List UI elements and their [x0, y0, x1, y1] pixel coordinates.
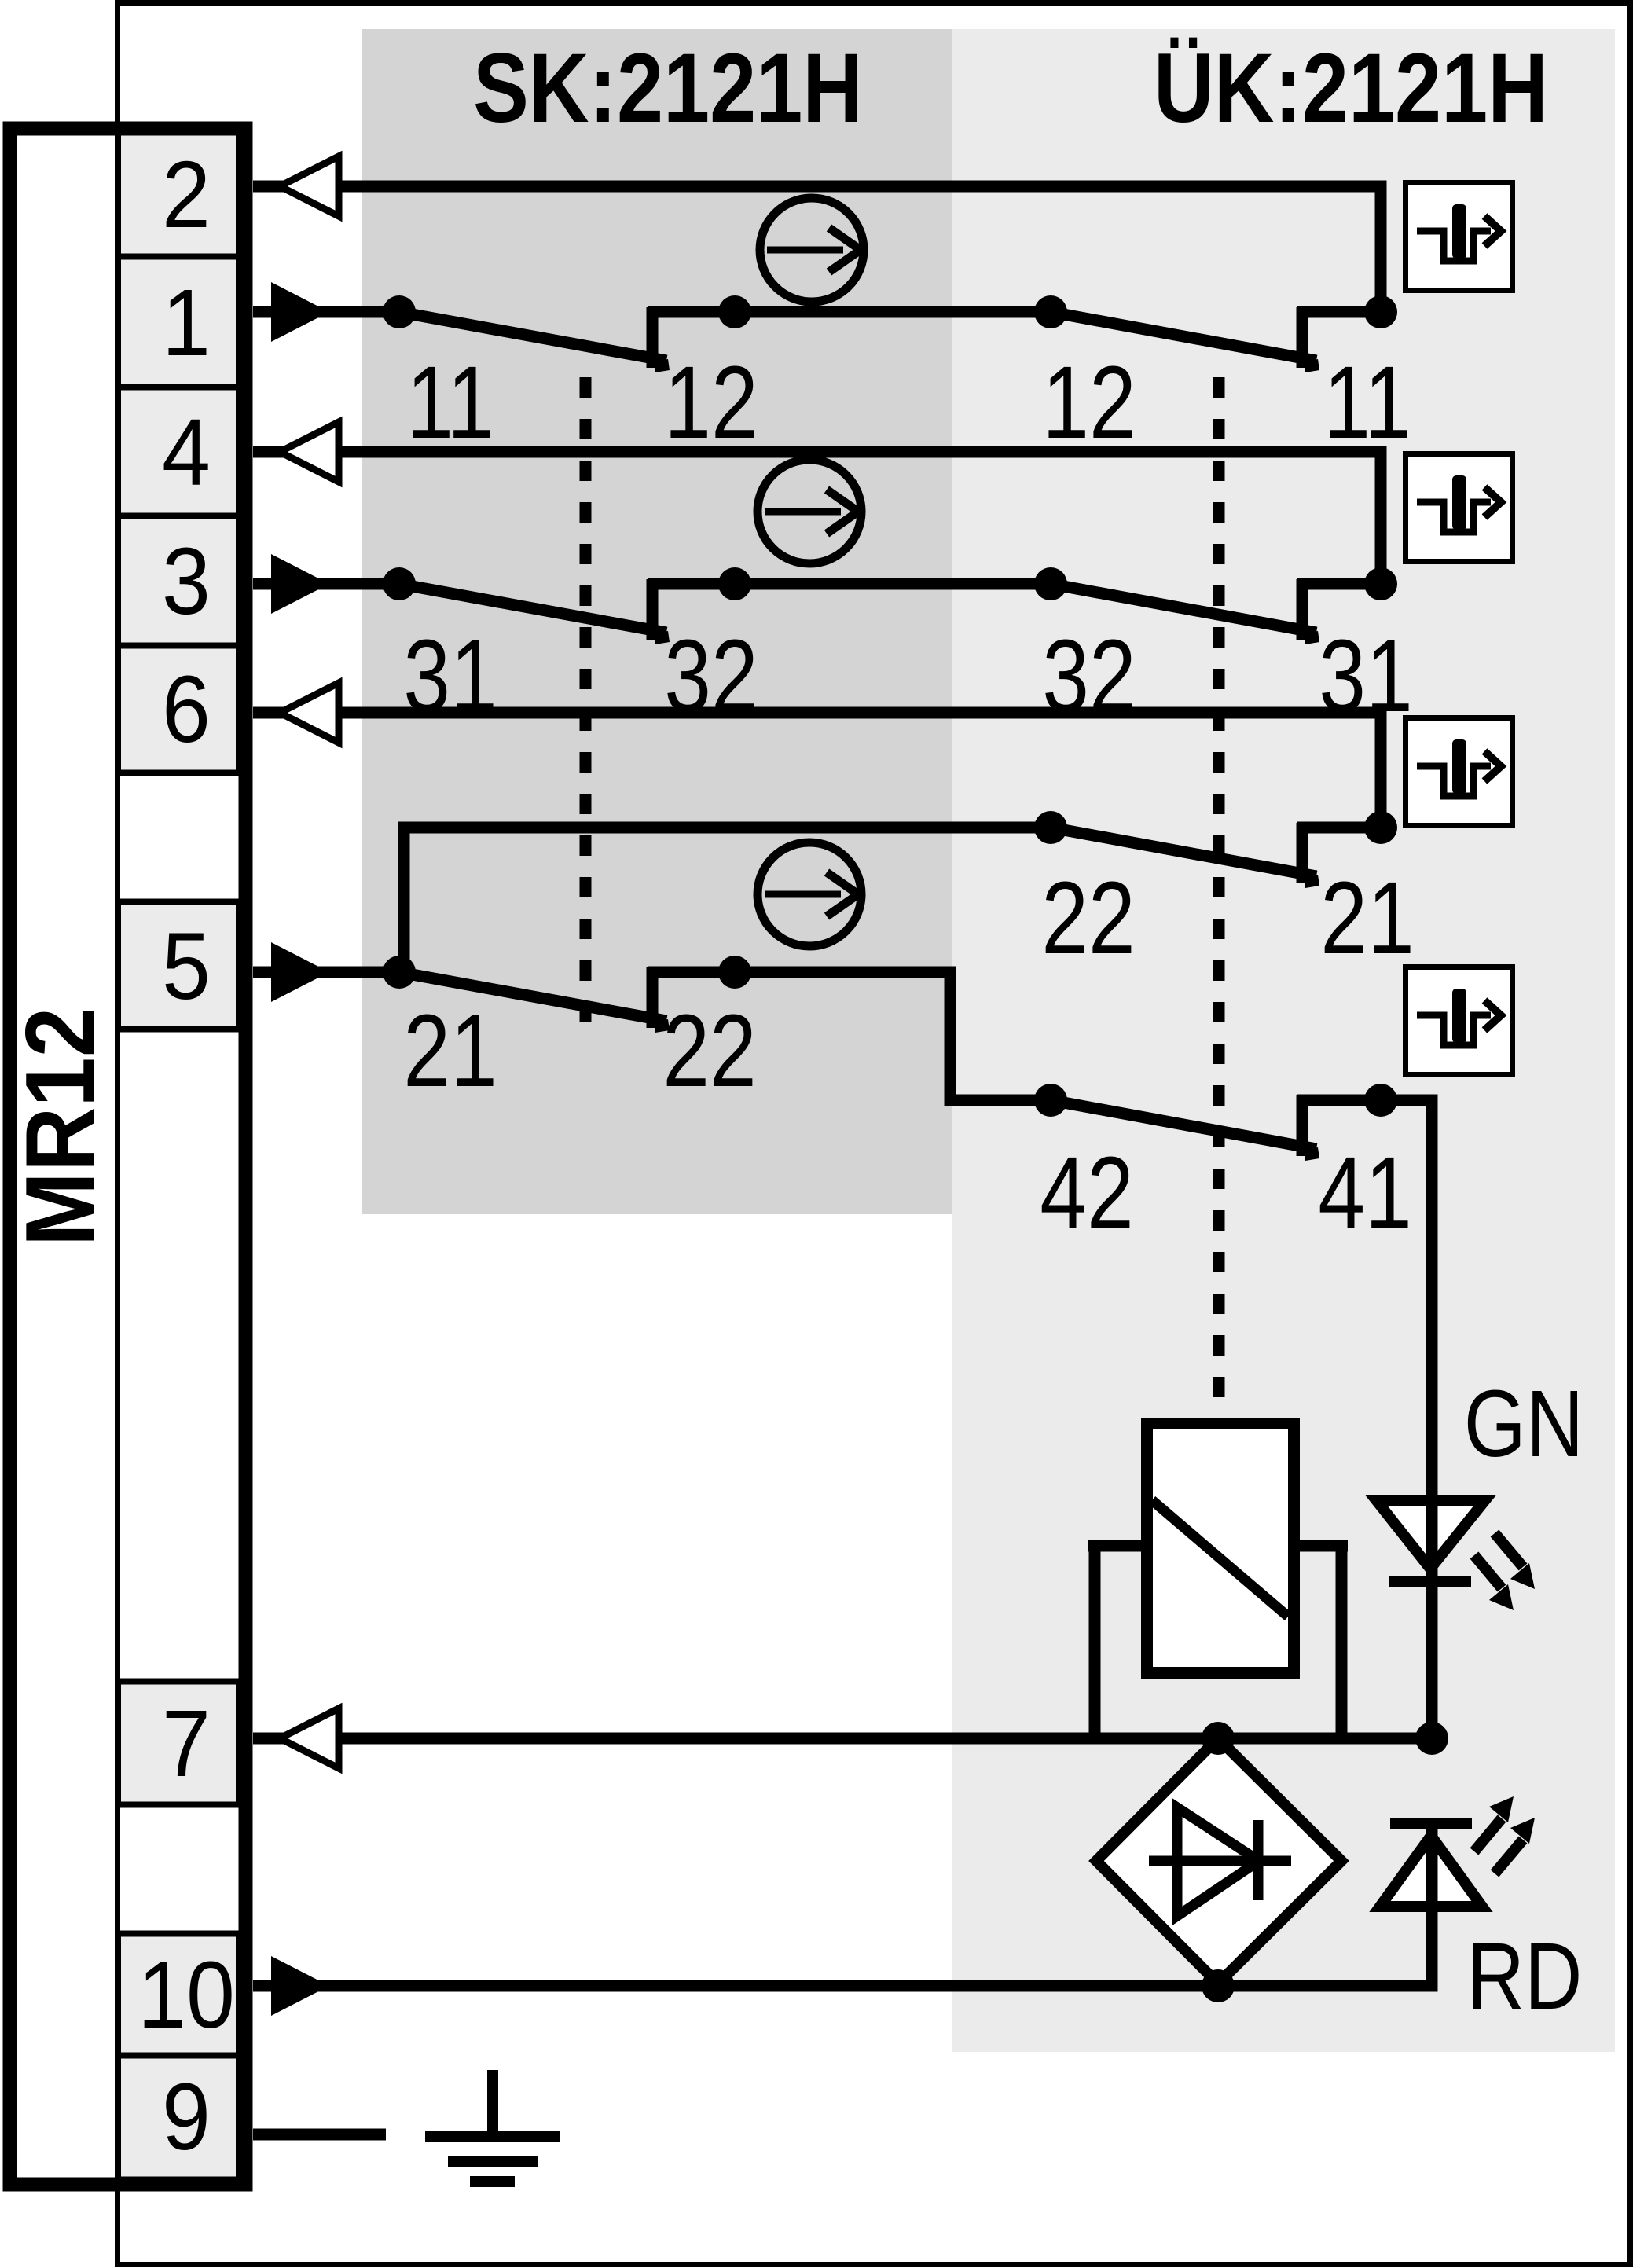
- svg-text:11: 11: [1323, 346, 1411, 460]
- svg-text:11: 11: [406, 346, 494, 460]
- svg-text:MR12: MR12: [6, 1007, 115, 1246]
- svg-text:5: 5: [162, 913, 211, 1019]
- svg-text:1: 1: [162, 270, 211, 376]
- svg-text:41: 41: [1318, 1136, 1411, 1250]
- svg-text:2: 2: [162, 141, 211, 248]
- svg-text:7: 7: [162, 1690, 211, 1796]
- svg-text:10: 10: [138, 1942, 235, 2048]
- svg-text:22: 22: [1041, 861, 1135, 975]
- svg-text:3: 3: [162, 528, 211, 634]
- svg-text:12: 12: [1042, 346, 1136, 460]
- svg-text:RD: RD: [1467, 1923, 1583, 2029]
- svg-text:32: 32: [664, 619, 758, 733]
- svg-text:42: 42: [1040, 1136, 1133, 1250]
- svg-text:31: 31: [403, 619, 497, 733]
- svg-text:SK:2121H: SK:2121H: [473, 33, 863, 143]
- svg-text:ÜK:2121H: ÜK:2121H: [1154, 33, 1548, 143]
- svg-text:21: 21: [403, 994, 497, 1108]
- svg-text:6: 6: [162, 656, 211, 762]
- svg-text:31: 31: [1319, 619, 1412, 733]
- svg-text:12: 12: [664, 346, 758, 460]
- svg-text:21: 21: [1320, 861, 1414, 975]
- svg-text:32: 32: [1042, 619, 1136, 733]
- svg-text:9: 9: [162, 2064, 211, 2170]
- svg-text:4: 4: [162, 399, 211, 505]
- svg-text:GN: GN: [1464, 1371, 1583, 1477]
- svg-text:22: 22: [662, 994, 756, 1108]
